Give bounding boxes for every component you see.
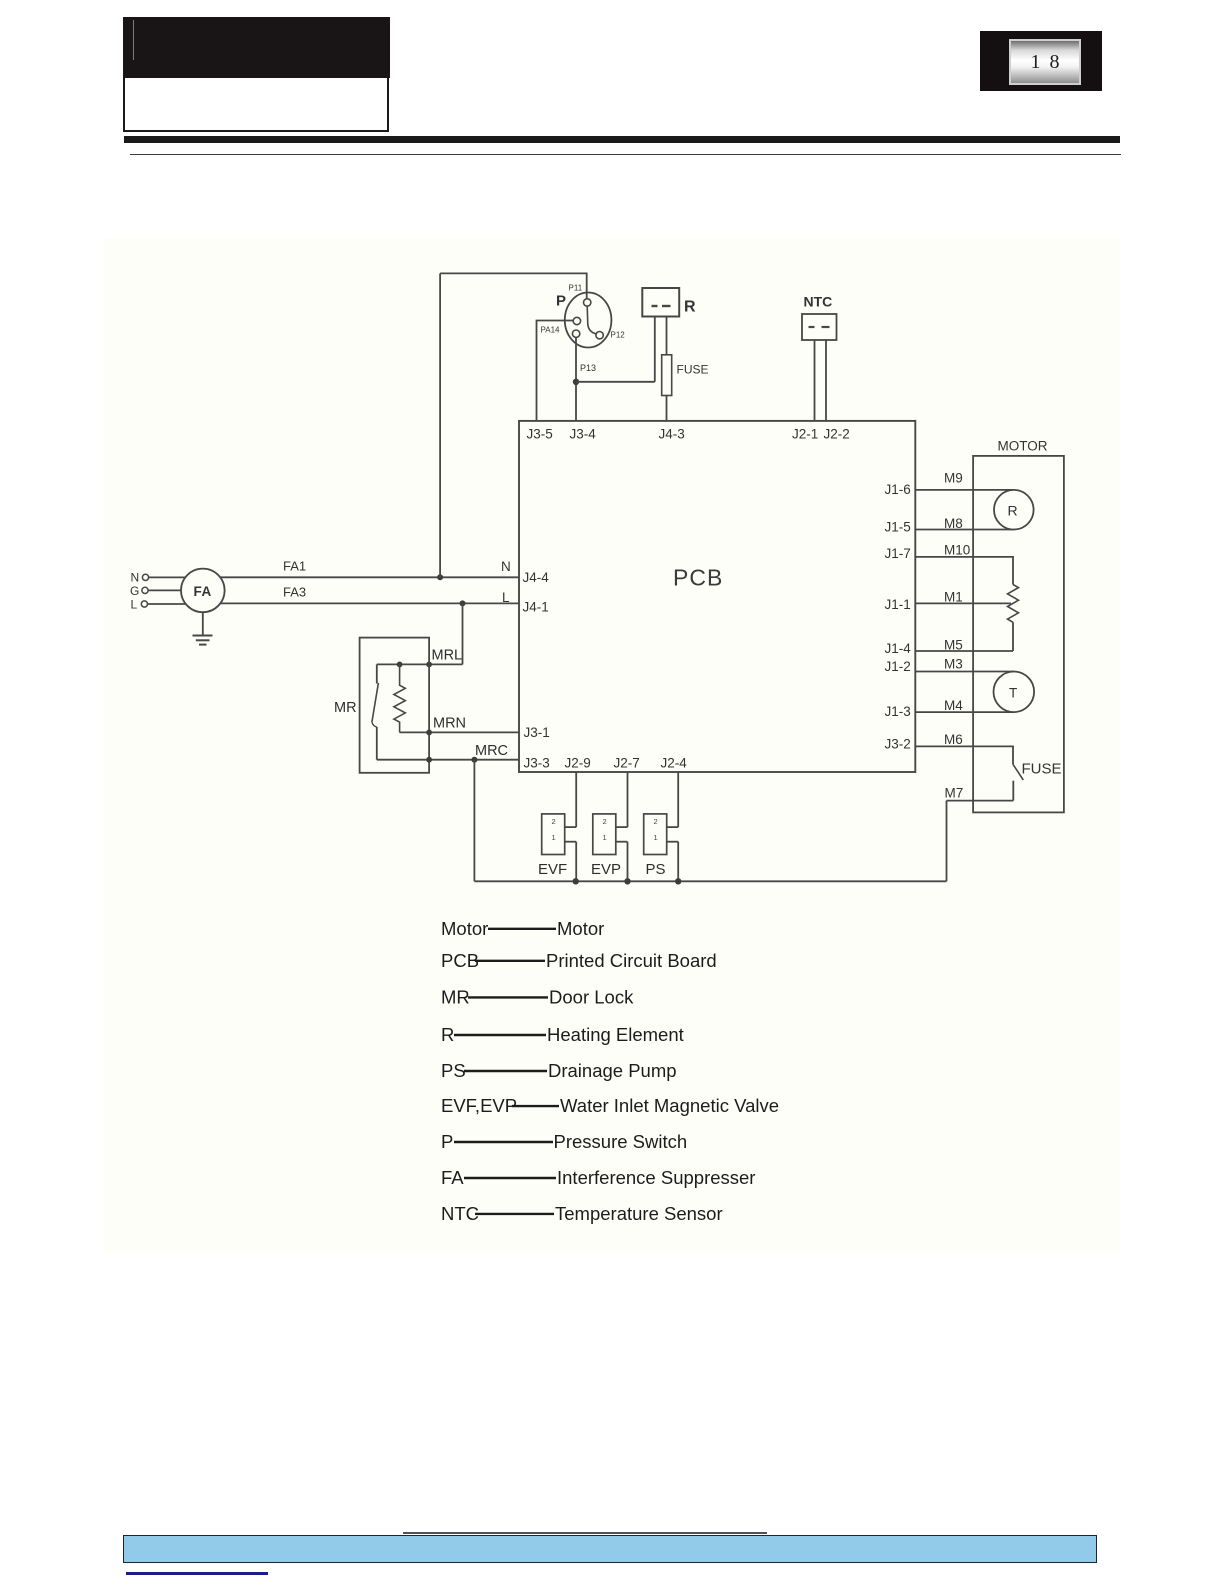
ground bar 3 [199, 644, 207, 646]
svg-text:G: G [130, 584, 139, 598]
svg-text:MR: MR [441, 987, 470, 1008]
svg-text:M7: M7 [945, 786, 964, 801]
wire riser MRC to bottom rail [473, 760, 475, 882]
svg-text:P13: P13 [580, 363, 596, 373]
svg-text:FUSE: FUSE [677, 363, 709, 377]
svg-text:Drainage Pump: Drainage Pump [548, 1060, 677, 1081]
svg-text:Door Lock: Door Lock [549, 987, 634, 1008]
wire J2-7 drop [627, 772, 629, 827]
svg-text:FA: FA [441, 1167, 464, 1188]
svg-text:R: R [684, 299, 696, 316]
drainage pump PS box [644, 814, 667, 855]
svg-text:M3: M3 [944, 657, 963, 672]
junction EVF rail [573, 878, 579, 884]
svg-text:M8: M8 [944, 516, 963, 531]
pressure switch P body [565, 293, 612, 348]
wire G to FA [148, 589, 181, 591]
EVP pin1 stub [616, 841, 628, 843]
svg-text:J2-2: J2-2 [824, 427, 850, 442]
svg-text:P: P [441, 1131, 453, 1152]
interference suppressor FA [181, 569, 225, 613]
page number badge metal plate [1009, 39, 1081, 85]
wire M5 from J1-4 [915, 650, 1013, 652]
NTC lead 1 to J2-1 [814, 340, 816, 421]
EVF pin1 stub [565, 841, 577, 843]
EVP drop to rail [627, 842, 629, 882]
contact P12 [596, 332, 603, 339]
svg-text:FUSE: FUSE [1022, 761, 1062, 778]
terminal N [142, 574, 148, 580]
wire M1 from J1-1 [915, 602, 1011, 604]
junction EVP rail [624, 878, 630, 884]
ground stem [202, 612, 204, 635]
junction MRN at box edge [426, 730, 432, 736]
motor winding resistor [1008, 585, 1019, 623]
temperature sensor NTC box [802, 314, 837, 340]
svg-text:N: N [501, 559, 511, 574]
terminal G [142, 587, 148, 593]
R heater dash 1 [652, 305, 658, 307]
winding lower lead [1012, 622, 1014, 651]
printed circuit board PCB box [519, 421, 915, 772]
wire FA3 (L line to PCB J4-1) [221, 602, 520, 604]
wire FA3 branch riser to MRL [462, 603, 464, 664]
svg-text:J2-1: J2-1 [792, 427, 818, 442]
svg-text:2: 2 [603, 817, 607, 826]
PS drop to rail [677, 842, 679, 882]
svg-text:J3-5: J3-5 [527, 427, 553, 442]
footer navy underline [126, 1572, 268, 1574]
wire M9 from J1-6 [915, 489, 1014, 491]
svg-text:J3-1: J3-1 [524, 725, 550, 740]
svg-text:FA1: FA1 [283, 559, 306, 574]
svg-text:M4: M4 [944, 698, 963, 713]
EVP pin2 stub [616, 826, 628, 828]
wire riser to pressure switch feed [439, 273, 441, 577]
junction MRC at rail riser [471, 757, 477, 763]
heating element R box [642, 288, 679, 317]
junction on FA1 [437, 574, 443, 580]
svg-text:PCB: PCB [441, 950, 479, 971]
svg-text:PCB: PCB [673, 565, 723, 591]
svg-text:N: N [131, 571, 140, 585]
svg-text:Water Inlet Magnetic Valve: Water Inlet Magnetic Valve [560, 1095, 779, 1116]
svg-text:J1-2: J1-2 [885, 659, 911, 674]
wire top feed to P11 [440, 273, 587, 298]
svg-text:J1-5: J1-5 [885, 520, 911, 535]
svg-text:J2-7: J2-7 [614, 756, 640, 771]
header thick rule [124, 136, 1120, 143]
wire P13 drop to J3-4 [575, 337, 577, 421]
NTC dash 2 [822, 326, 830, 328]
PS pin1 stub [667, 841, 679, 843]
svg-text:M1: M1 [944, 590, 963, 605]
svg-text:J1-1: J1-1 [885, 597, 911, 612]
svg-text:1: 1 [654, 833, 658, 842]
header black band [123, 17, 390, 78]
header gray streak [133, 20, 134, 60]
junction PS rail [675, 878, 681, 884]
ground bar 1 [193, 635, 213, 637]
svg-text:Motor: Motor [441, 918, 488, 939]
motor box [973, 456, 1064, 813]
svg-text:M6: M6 [944, 732, 963, 747]
svg-text:M9: M9 [944, 471, 963, 486]
svg-text:MRL: MRL [432, 648, 463, 664]
svg-text:J2-4: J2-4 [661, 756, 688, 771]
contact PA14 [573, 317, 580, 324]
header thin rule [130, 154, 1121, 156]
bottom rail wire [474, 880, 946, 882]
svg-text:Printed Circuit Board: Printed Circuit Board [546, 950, 717, 971]
svg-text:T: T [1009, 686, 1017, 701]
contact P11 [584, 299, 591, 306]
svg-text:MOTOR: MOTOR [998, 439, 1048, 454]
svg-text:1: 1 [603, 833, 607, 842]
MR switch blade [372, 683, 379, 722]
footer dark top segment [403, 1532, 767, 1534]
svg-text:L: L [502, 590, 510, 605]
switch arm P11-P12 [587, 306, 596, 334]
terminal L [141, 601, 147, 607]
junction MRL at resistor [397, 662, 403, 668]
NTC lead 2 to J2-2 [825, 340, 827, 421]
wire M8 from J1-5 [915, 529, 1014, 531]
tacho generator R circle [994, 490, 1034, 530]
thermal protector T circle [994, 672, 1035, 713]
svg-text:EVP: EVP [591, 861, 621, 878]
diagram scan tint [104, 238, 1120, 1252]
R heater dash 2 [662, 305, 671, 307]
wire J2-9 drop [575, 772, 577, 827]
fuse body [662, 355, 672, 396]
contact P13 lower [572, 330, 579, 337]
svg-text:EVF,EVP: EVF,EVP [441, 1095, 517, 1116]
svg-text:NTC: NTC [804, 294, 833, 310]
svg-text:J1-4: J1-4 [885, 641, 912, 656]
MR switch pivot hook [372, 722, 377, 727]
header outer box [123, 17, 389, 132]
svg-text:Pressure Switch: Pressure Switch [554, 1131, 688, 1152]
svg-text:P: P [556, 293, 566, 310]
wire M7 horizontal [947, 800, 1014, 802]
wire L to FA [148, 603, 186, 605]
svg-text:M10: M10 [944, 543, 970, 558]
door lock MR box [360, 638, 430, 773]
wire P13 to heater R [576, 381, 655, 383]
svg-text:1: 1 [552, 833, 556, 842]
svg-text:2: 2 [552, 817, 556, 826]
svg-text:L: L [131, 598, 138, 612]
svg-text:Motor: Motor [557, 918, 604, 939]
wire M4 from J1-3 [915, 711, 1014, 713]
junction on FA3 [460, 600, 466, 606]
svg-text:Heating Element: Heating Element [547, 1024, 684, 1045]
MR switch lower stub [376, 727, 378, 760]
MR PTC resistor [394, 664, 405, 732]
ground bar 2 [196, 639, 210, 641]
svg-text:R: R [1008, 503, 1018, 519]
motor fuse blade [1013, 764, 1023, 780]
svg-text:J3-2: J3-2 [885, 737, 911, 752]
svg-text:FA3: FA3 [283, 585, 306, 600]
wire N to FA [149, 576, 185, 578]
svg-text:MRN: MRN [433, 716, 466, 732]
wire MRL [377, 663, 463, 665]
svg-text:PS: PS [441, 1060, 466, 1081]
junction MRC at box edge [426, 757, 432, 763]
valve EVP box [593, 814, 616, 855]
wire M7 riser to rail [946, 801, 948, 882]
R right lead upper [666, 317, 668, 356]
footer blue bar [123, 1535, 1097, 1563]
svg-text:P11: P11 [569, 284, 583, 293]
wire PA14 to J3-5 [537, 321, 574, 421]
EVF drop to rail [575, 842, 577, 882]
svg-text:PA14: PA14 [541, 326, 561, 335]
motor fuse lower contact [1012, 781, 1014, 801]
wire M6 from J3-2 [915, 746, 1013, 764]
svg-text:P12: P12 [611, 331, 626, 340]
wire M10 from J1-7 [915, 557, 1013, 585]
svg-text:J4-4: J4-4 [523, 570, 550, 585]
svg-text:NTC: NTC [441, 1203, 479, 1224]
junction P13 node [573, 379, 579, 385]
wire J2-4 drop [677, 772, 679, 827]
svg-text:J1-7: J1-7 [885, 546, 911, 561]
svg-text:J4-1: J4-1 [523, 600, 549, 615]
svg-text:J3-4: J3-4 [570, 427, 597, 442]
NTC dash 1 [809, 326, 815, 328]
svg-text:Temperature Sensor: Temperature Sensor [555, 1203, 723, 1224]
svg-text:2: 2 [654, 817, 658, 826]
wire M3 from J1-2 [915, 671, 1014, 673]
MR switch upper stub [376, 664, 378, 683]
svg-text:FA: FA [194, 584, 212, 599]
R left lead [654, 317, 656, 382]
svg-text:MR: MR [334, 700, 357, 716]
wire FA1 (N line to PCB J4-4) [221, 576, 520, 578]
EVF pin2 stub [565, 826, 577, 828]
PS pin2 stub [667, 826, 679, 828]
svg-text:EVF: EVF [538, 861, 567, 878]
svg-text:Interference Suppresser: Interference Suppresser [557, 1167, 755, 1188]
page number badge black plate [980, 31, 1102, 91]
svg-text:PS: PS [646, 861, 666, 878]
svg-text:J1-6: J1-6 [885, 482, 911, 497]
svg-text:J2-9: J2-9 [565, 756, 591, 771]
svg-text:J1-3: J1-3 [885, 704, 911, 719]
valve EVF box [542, 814, 565, 855]
svg-text:J4-3: J4-3 [659, 427, 685, 442]
svg-text:MRC: MRC [475, 743, 508, 759]
svg-text:J3-3: J3-3 [524, 756, 550, 771]
wire MRN to J3-1 [400, 731, 519, 733]
junction MRL at box edge [426, 662, 432, 668]
R right lead lower to J4-3 [666, 396, 668, 421]
svg-text:M5: M5 [944, 638, 963, 653]
wire MRC to J3-3 [377, 759, 519, 761]
svg-text:R: R [441, 1024, 454, 1045]
